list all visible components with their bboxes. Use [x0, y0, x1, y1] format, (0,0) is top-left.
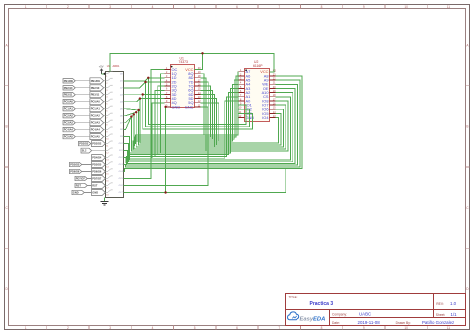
svg-text:3: 3	[109, 5, 111, 9]
wire ctrl WE	[124, 84, 298, 165]
wire +5V to U1 VCC	[195, 53, 203, 69]
junction	[142, 93, 144, 95]
svg-text:PD7/D7: PD7/D7	[76, 177, 86, 181]
wire 1Q to A3	[128, 88, 238, 157]
wire GND long	[124, 169, 286, 193]
wire bus D6 row	[124, 114, 134, 122]
junction	[144, 81, 146, 83]
wire bus D1 to IO2	[146, 82, 250, 127]
wire bus D0 to IO1	[148, 78, 246, 125]
wire 7Q drop	[201, 86, 211, 137]
wire 1Q drop	[161, 74, 165, 153]
svg-text:6: 6	[236, 326, 238, 330]
svg-text:1.0: 1.0	[450, 301, 457, 306]
svg-text:IO4: IO4	[262, 115, 269, 120]
svg-text:A: A	[466, 43, 469, 47]
svg-text:1: 1	[25, 326, 27, 330]
svg-text:C: C	[5, 206, 8, 210]
wire IO2 riser	[238, 109, 249, 124]
junction	[147, 77, 149, 79]
junction	[139, 97, 141, 99]
wire U1 7D drop	[201, 78, 207, 151]
+5V power flag	[99, 65, 106, 75]
wire IO1 riser	[238, 105, 246, 124]
wire 8Q drop	[201, 74, 204, 135]
svg-text:PC0/A0: PC0/A0	[91, 100, 101, 104]
svg-text:Company:: Company:	[332, 312, 347, 316]
svg-text:Patiño Gonzalez: Patiño Gonzalez	[422, 320, 454, 325]
svg-text:PC0/A0: PC0/A0	[64, 100, 74, 104]
svg-text:4: 4	[152, 5, 154, 9]
wire bus D3 row	[124, 99, 165, 102]
svg-text:8: 8	[321, 326, 323, 330]
svg-text:PC4/A4: PC4/A4	[91, 128, 101, 132]
svg-text:GND: GND	[73, 191, 79, 195]
svg-text:PB3/11: PB3/11	[64, 93, 73, 97]
wire bus D4 row	[124, 109, 139, 110]
svg-text:8: 8	[321, 5, 323, 9]
IC U1 74373 octal latch	[164, 56, 201, 109]
wire IO3 riser	[238, 113, 252, 124]
svg-text:PD6/D6: PD6/D6	[92, 170, 102, 174]
svg-text:7: 7	[278, 5, 280, 9]
svg-text:PB2/10: PB2/10	[64, 86, 73, 90]
svg-text:PD6/D6: PD6/D6	[70, 170, 80, 174]
junction	[164, 106, 166, 108]
wire U1 5D drop	[201, 95, 215, 148]
wire 2Q to A2	[128, 93, 239, 160]
svg-text:SL2: SL2	[82, 150, 87, 153]
svg-text:PC2/A2: PC2/A2	[64, 114, 74, 118]
wire 3Q drop	[155, 90, 165, 156]
wire ctrl A8	[124, 76, 303, 172]
connector U3 header box	[106, 64, 124, 197]
svg-text:PB1/D9: PB1/D9	[91, 79, 101, 83]
wire ENC	[124, 107, 209, 186]
wire 2Q drop	[158, 86, 165, 155]
svg-text:PD2/D2: PD2/D2	[92, 142, 102, 146]
svg-text:+5V: +5V	[99, 65, 104, 69]
svg-text:PC1/A1: PC1/A1	[64, 107, 74, 111]
svg-text:PD2/D2: PD2/D2	[79, 142, 89, 146]
svg-text:1/1: 1/1	[451, 312, 458, 317]
svg-text:B: B	[6, 125, 8, 129]
svg-text:6: 6	[236, 5, 238, 9]
svg-text:PD7/D7: PD7/D7	[92, 177, 102, 181]
svg-text:PC3/A3: PC3/A3	[91, 121, 101, 125]
wire 5Q to A4	[133, 84, 239, 150]
svg-text:PD5/D5: PD5/D5	[92, 163, 102, 167]
svg-text:9: 9	[363, 5, 365, 9]
svg-text:11: 11	[447, 326, 451, 330]
svg-text:GND: GND	[172, 104, 181, 109]
wire OC	[124, 70, 165, 179]
wire +5V rail	[110, 53, 274, 72]
svg-text:5: 5	[194, 326, 196, 330]
wire bus D3 to IO4	[140, 99, 279, 143]
wire bus D7 row	[124, 117, 132, 130]
svg-text:PC1/A1: PC1/A1	[91, 107, 101, 111]
wire bus D1 row	[124, 82, 165, 88]
wire bus D7 band	[131, 101, 288, 151]
EasyEDA logo	[288, 312, 326, 323]
svg-text:RST: RST	[76, 184, 82, 188]
svg-text:Date:: Date:	[332, 321, 340, 325]
svg-text:PC2/A2: PC2/A2	[91, 114, 101, 118]
junction	[137, 109, 139, 111]
svg-text:PB2/10: PB2/10	[91, 86, 100, 90]
svg-text:9: 9	[363, 326, 365, 330]
ground symbol	[101, 198, 109, 206]
wire 3Q to A1	[127, 97, 239, 162]
svg-text:2019-11-08: 2019-11-08	[358, 320, 381, 325]
svg-text:PC4/A4: PC4/A4	[64, 128, 74, 132]
junction	[164, 191, 166, 193]
net flag column	[63, 78, 106, 196]
wire U1 6D drop	[201, 82, 209, 149]
junction	[135, 111, 137, 113]
svg-text:RST: RST	[92, 184, 98, 188]
wire 6Q drop	[201, 90, 213, 139]
junction	[133, 113, 135, 115]
svg-text:11: 11	[447, 5, 451, 9]
svg-text:1: 1	[25, 5, 27, 9]
wire bus D6 band	[134, 105, 286, 149]
svg-text:PB1/D9: PB1/D9	[64, 79, 74, 83]
svg-text:10: 10	[404, 5, 408, 9]
wire U1 4D drop	[201, 99, 217, 145]
wire U1 GND drop	[164, 107, 165, 193]
wire ctrl A10	[124, 93, 293, 162]
junction	[130, 115, 132, 117]
svg-text:2: 2	[67, 5, 69, 9]
svg-text:6116P: 6116P	[253, 64, 263, 68]
svg-text:EasyEDA: EasyEDA	[300, 317, 326, 323]
title block	[286, 294, 466, 326]
wire ctrl CS	[124, 97, 291, 160]
svg-text:PC5/A5: PC5/A5	[64, 135, 74, 139]
wire 7Q to A6	[135, 76, 239, 146]
svg-text:Sheet:: Sheet:	[436, 313, 446, 317]
wire bus D4 band	[139, 110, 281, 145]
svg-text:Drawn By:: Drawn By:	[396, 321, 411, 325]
svg-text:PB3/11: PB3/11	[91, 93, 100, 97]
svg-text:Practica 3: Practica 3	[310, 301, 334, 307]
wire bus D5 row	[124, 112, 137, 116]
wire ctrl OE	[124, 88, 296, 163]
svg-text:UABC: UABC	[359, 312, 371, 317]
junction	[201, 52, 203, 54]
svg-text:5: 5	[194, 5, 196, 9]
svg-text:ENC: ENC	[185, 104, 193, 109]
wire 5Q drop	[201, 103, 219, 141]
wire 4Q drop	[152, 103, 164, 158]
svg-text:B: B	[466, 125, 468, 129]
svg-text:7: 7	[278, 326, 280, 330]
svg-text:74373: 74373	[179, 60, 189, 64]
wire bus D0 row	[124, 78, 165, 81]
svg-text:D: D	[466, 287, 469, 291]
wire 6Q to A5	[134, 80, 239, 148]
wire 8Q to A7	[136, 72, 239, 144]
svg-text:10: 10	[404, 326, 408, 330]
svg-text:PD4/D4: PD4/D4	[92, 156, 102, 160]
wire bus D5 band	[136, 109, 283, 147]
svg-text:PC3/A3: PC3/A3	[64, 121, 74, 125]
svg-text:2: 2	[67, 326, 69, 330]
svg-text:REV:: REV:	[436, 302, 444, 306]
svg-text:TITLE:: TITLE:	[289, 295, 298, 299]
svg-text:4: 4	[152, 326, 154, 330]
svg-text:PC5/A5: PC5/A5	[91, 135, 101, 139]
svg-text:C: C	[466, 206, 469, 210]
wire ctrl A9	[124, 80, 300, 167]
svg-text:D: D	[5, 287, 8, 291]
wire bus D2 to IO3	[143, 95, 253, 129]
svg-text:PD5/D5: PD5/D5	[70, 163, 80, 167]
wire 4Q to A0	[126, 101, 239, 163]
svg-text:GND: GND	[92, 191, 98, 195]
svg-text:ARD1: ARD1	[113, 64, 120, 68]
svg-text:3: 3	[109, 326, 111, 330]
wire bus D2 row	[124, 94, 165, 96]
memory IC U2 6116P SRAM	[238, 60, 276, 122]
